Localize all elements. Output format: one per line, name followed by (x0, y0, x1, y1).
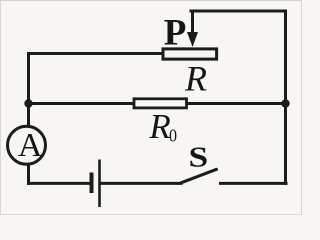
svg-text:P: P (164, 13, 187, 54)
wire bottom left to battery (29, 182, 90, 185)
arrowhead of wiper P (187, 32, 198, 47)
wire middle right segment from R0 (187, 102, 286, 105)
wire left lead to rheostat (29, 52, 164, 55)
wire middle left segment to R0 (29, 102, 134, 105)
node junction right (281, 99, 289, 107)
svg-text:S: S (188, 140, 208, 172)
svg-text:R: R (184, 59, 207, 99)
wire wiper riser of rheostat (191, 11, 194, 33)
ammeter A body (8, 126, 46, 164)
wire ammeter bottom lead (27, 165, 30, 183)
switch S blade (181, 169, 217, 183)
svg-text:0: 0 (169, 126, 177, 146)
node junction left (24, 99, 32, 107)
rheostat R body (163, 49, 217, 59)
svg-text:A: A (18, 127, 43, 164)
wire left vertical (27, 54, 30, 126)
battery positive plate (long thin) (98, 160, 101, 208)
wire top from wiper to top-right corner (191, 10, 286, 13)
scan border artifact top (0, 0, 302, 1)
wire switch to bottom-right corner (221, 182, 287, 185)
resistor R0 body (134, 99, 187, 108)
scan border artifact right (301, 0, 302, 215)
wire battery to switch (101, 182, 181, 185)
scan border artifact left (0, 0, 1, 215)
svg-text:R: R (148, 107, 170, 146)
scan border artifact bottom (0, 214, 302, 215)
battery negative plate (short thick) (90, 173, 94, 194)
wire right vertical (284, 11, 287, 183)
